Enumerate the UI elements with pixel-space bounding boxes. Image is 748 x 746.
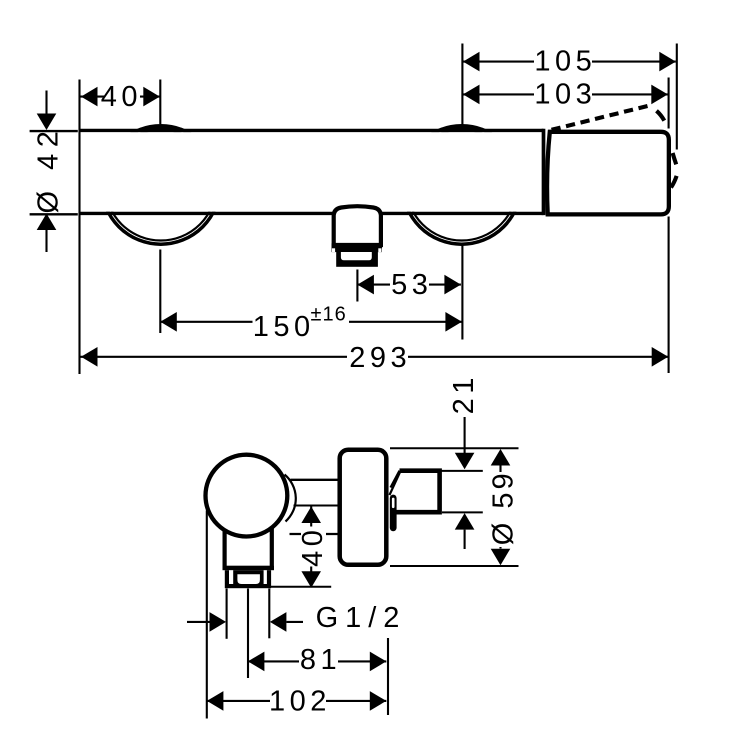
left escutcheon top bump fill [136, 126, 185, 131]
outlet housing below knob [225, 505, 272, 568]
diameter 59 lower arrow [491, 549, 511, 566]
diameter 42 lower line [45, 230, 47, 252]
dimension 103 line [463, 93, 668, 95]
right escutcheon outer circle [403, 126, 521, 244]
diameter 42 upper arrow [37, 114, 57, 131]
extension line 81/102 right (wall plane) [387, 638, 389, 715]
right escutcheon top bump fill [437, 126, 486, 131]
dimension 103 right arrow [651, 85, 668, 105]
connector step line [294, 505, 339, 507]
outlet shoulder white notches [332, 248, 335, 252]
extension line 293 right lower [668, 217, 670, 374]
svg-text:40: 40 [297, 526, 329, 567]
dimension 102 text [269, 686, 331, 718]
svg-text:103: 103 [534, 79, 596, 111]
dimension 40 right arrow [143, 87, 160, 107]
diameter 42 bottom tick [30, 213, 78, 215]
diameter 42 top tick [30, 130, 78, 132]
svg-text:53: 53 [391, 269, 432, 301]
reference line hose plane [271, 586, 331, 588]
dimension 40 side upper arrow [301, 507, 321, 524]
dimension 150 line [160, 321, 462, 323]
svg-text:81: 81 [300, 644, 341, 676]
bar bottom edge left segment [80, 212, 336, 215]
valve body arc behind knob [285, 475, 296, 522]
hose centre line [247, 589, 249, 679]
dimension 53 left arrow [357, 275, 374, 295]
dimension 40 side text [297, 526, 329, 567]
svg-text:Ø 42: Ø 42 [32, 125, 64, 214]
dimension 40 side lower arrow [301, 571, 321, 588]
diameter 42 lower arrow [37, 214, 57, 231]
diameter 42 dimension upper line [45, 91, 47, 114]
union nut square at wall [394, 471, 440, 513]
dimension 103 text [534, 79, 596, 111]
extension line 102 left [206, 511, 208, 719]
svg-text:150: 150 [253, 311, 315, 343]
dimension 103 left arrow [463, 85, 480, 105]
left escutcheon outer circle [102, 126, 220, 244]
svg-text:102: 102 [269, 686, 331, 718]
dimension 105 text [534, 46, 596, 78]
dimension 40 line [81, 96, 160, 98]
dimension 40 left arrow [81, 87, 98, 107]
dimension 105 right arrow [659, 52, 676, 72]
dimension 21 lower arrow pointing up [455, 513, 475, 530]
svg-text:±16: ±16 [310, 304, 346, 326]
svg-text:293: 293 [349, 342, 411, 374]
union cone diagonal upper [391, 471, 400, 488]
dimension 53 line [357, 284, 461, 286]
right escutcheon inner rim circle [406, 130, 517, 241]
G1/2 dimension left lead line [187, 621, 210, 623]
dimension 21 lower tail line [464, 530, 466, 549]
diameter 59 text [488, 470, 520, 547]
dimension 53 text [390, 269, 432, 301]
connector bottom line [290, 533, 339, 535]
reference line top of escutcheon [390, 447, 519, 449]
hose nut white window left [229, 570, 233, 584]
small pipe capsule [390, 495, 397, 532]
svg-text:21: 21 [448, 373, 480, 414]
extension line 40 right (escutcheon centre) [159, 80, 161, 125]
G1/2 extension line right [268, 589, 270, 639]
hose nut shoulder band [223, 566, 275, 570]
extension line 105 right [676, 44, 678, 150]
outlet shoulder band [332, 243, 383, 252]
dimension 40 text [101, 81, 142, 113]
reference line top of union [441, 470, 483, 472]
handle raised position dashed outline [552, 106, 677, 188]
dimension 105 left arrow [463, 52, 480, 72]
dimension 102 line [207, 700, 386, 702]
dimension 21 line [464, 417, 466, 453]
dimension 102 right arrow [370, 691, 387, 711]
dimension 53 right arrow [444, 275, 461, 295]
svg-text:Ø 59: Ø 59 [488, 470, 520, 545]
dimension 81 line [248, 660, 386, 662]
extension line shared 105/103 left [461, 44, 463, 125]
bar bottom edge right segment [380, 212, 544, 215]
dimension 150 right arrow [445, 312, 462, 332]
hose nut body [225, 570, 271, 588]
dimension 81 text [299, 644, 341, 676]
G1/2 right lead line [286, 621, 303, 623]
wall escutcheon rounded rectangle [340, 450, 387, 565]
hose nut white window right [264, 570, 267, 584]
knob circle (bar end view) [206, 455, 288, 537]
extension line 103/293 right upper [668, 78, 670, 129]
dimension 81 left arrow [248, 652, 265, 672]
union cone diagonal lower [390, 471, 401, 495]
dimension 150 left arrow [160, 312, 177, 332]
dimension 293 text [347, 342, 411, 374]
outlet hex nut [336, 252, 378, 267]
dimension 81 right arrow [370, 652, 387, 672]
reference line bottom of union [442, 511, 483, 513]
bar body white fill [81, 132, 543, 212]
G1/2 left arrow pointing right [210, 612, 227, 632]
extension line 293/40 left (bar left edge) [78, 80, 80, 375]
extension line 53/150 right (escutcheon centre) [461, 245, 463, 340]
extension line 53 left (outlet centre) [356, 270, 358, 302]
G1/2 extension line left [226, 589, 228, 639]
shower outlet dome [334, 206, 381, 245]
dimension 150 text [253, 304, 350, 343]
dimension 293 right arrow [652, 347, 669, 367]
extension line 150 left (left escutcheon centre) [159, 250, 161, 334]
diameter 59 upper arrow [491, 449, 511, 466]
dimension 105 line [463, 61, 676, 63]
connector top line [291, 479, 339, 481]
handle body [547, 132, 669, 215]
dimension 293 line [81, 356, 669, 358]
hose nut nipple white window [237, 574, 260, 584]
reference line bottom of escutcheon [390, 565, 519, 567]
bar top edge [80, 129, 544, 132]
outlet nut white window [341, 252, 372, 260]
svg-text:40: 40 [101, 81, 142, 113]
dimension 21 arrow [455, 453, 475, 470]
bar right end edge [542, 129, 546, 215]
dimension 293 left arrow [81, 347, 98, 367]
dimension 40 side vertical line [310, 507, 312, 588]
G1/2 right arrow pointing left [270, 612, 287, 632]
svg-text:G1/2: G1/2 [316, 602, 407, 634]
diameter 59 dimension line [499, 466, 501, 549]
svg-text:105: 105 [534, 46, 596, 78]
left escutcheon inner rim circle [105, 130, 216, 241]
dimension 102 left arrow [207, 691, 224, 711]
